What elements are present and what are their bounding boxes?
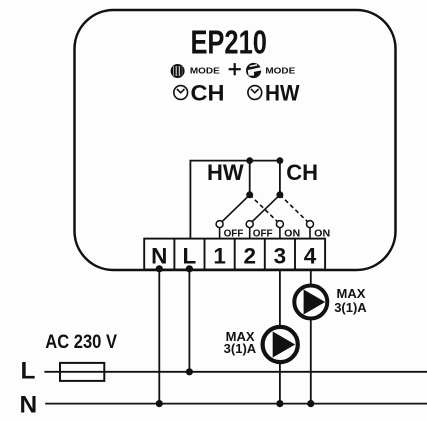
programmer outline EP210 box — [75, 10, 396, 270]
pump M2 rating label MAX 3(1)A — [224, 329, 257, 356]
CH mode icon (radiator) — [171, 64, 185, 78]
svg-text:N: N — [20, 391, 38, 418]
node top of CH switch — [277, 157, 284, 164]
wire terminal 4 to pump M1 — [310, 270, 312, 285]
clock icon CH — [174, 86, 188, 100]
junction node pump M2 to N line — [276, 400, 283, 407]
OFF contact circle terminal 2 — [246, 221, 253, 228]
terminal cell divider 4 — [294, 239, 296, 270]
wire CH common riser — [279, 161, 281, 195]
contact stub wire terminal 1 — [219, 228, 221, 239]
svg-text:AC 230 V: AC 230 V — [45, 332, 117, 353]
terminal strip outline — [144, 239, 325, 270]
svg-text:L: L — [21, 357, 36, 384]
N supply line — [45, 403, 427, 405]
svg-text:4: 4 — [304, 244, 317, 269]
CH switch blade to OFF contact (solid) — [252, 195, 280, 222]
svg-text:HW: HW — [207, 160, 244, 185]
HW switch blade to OFF contact (solid) — [222, 195, 250, 222]
wire terminal N to neutral line — [158, 270, 160, 404]
wire HW common riser — [249, 161, 251, 195]
CH switch common node — [276, 191, 283, 198]
contact stub wire terminal 2 — [249, 228, 251, 239]
svg-text:CH: CH — [286, 160, 318, 185]
svg-text:2: 2 — [243, 244, 256, 269]
terminal cell divider L — [173, 239, 175, 270]
svg-text:HW: HW — [265, 80, 300, 105]
ON contact circle terminal 4 — [307, 221, 314, 228]
clock icon HW — [248, 86, 262, 100]
junction node L wire to L line — [186, 368, 193, 375]
pump M1 (terminal 4 circuit) — [294, 286, 327, 319]
svg-text:3(1)A: 3(1)A — [334, 300, 367, 315]
wire pump M1 to neutral line — [310, 320, 312, 404]
HW mode icon (tap) — [246, 63, 261, 78]
svg-text:1: 1 — [213, 244, 226, 269]
svg-text:L: L — [183, 244, 197, 269]
svg-text:3(1)A: 3(1)A — [224, 341, 257, 356]
terminal cell divider 2 — [234, 239, 236, 270]
terminal cell divider 1 — [204, 239, 206, 270]
junction node at terminal N — [156, 265, 163, 272]
CH switch blade to ON contact (dashed) — [280, 195, 308, 222]
svg-text:MAX: MAX — [337, 286, 366, 301]
junction node pump M1 to N line — [307, 400, 314, 407]
OFF contact circle terminal 1 — [216, 221, 223, 228]
node top of HW switch — [246, 157, 253, 164]
pump M1 rating label MAX 3(1)A — [334, 286, 367, 315]
fuse F1 — [60, 363, 104, 381]
HW switch common node — [246, 191, 253, 198]
wire from terminal L up and across to switch commons — [190, 161, 280, 239]
junction node at terminal L — [186, 265, 193, 272]
contact stub wire terminal 4 — [309, 228, 311, 239]
junction node N wire to N line — [156, 400, 163, 407]
plus sign — [229, 63, 241, 75]
terminal cell divider 3 — [264, 239, 266, 270]
wire terminal L to live line — [188, 270, 190, 372]
svg-text:CH: CH — [191, 80, 225, 105]
svg-text:MODE: MODE — [190, 66, 220, 76]
L supply line — [44, 371, 427, 373]
svg-text:3: 3 — [274, 244, 287, 269]
wire terminal 3 to pump M2 — [279, 270, 281, 328]
HW switch blade to ON contact (dashed) — [250, 195, 278, 222]
contact stub wire terminal 3 — [279, 228, 281, 239]
pump M2 (terminal 3 circuit) — [263, 327, 298, 362]
wire pump M2 to neutral line — [279, 362, 281, 404]
svg-text:N: N — [151, 244, 167, 269]
ON contact circle terminal 3 — [276, 221, 283, 228]
svg-text:MODE: MODE — [265, 66, 295, 76]
svg-text:EP210: EP210 — [190, 25, 267, 62]
